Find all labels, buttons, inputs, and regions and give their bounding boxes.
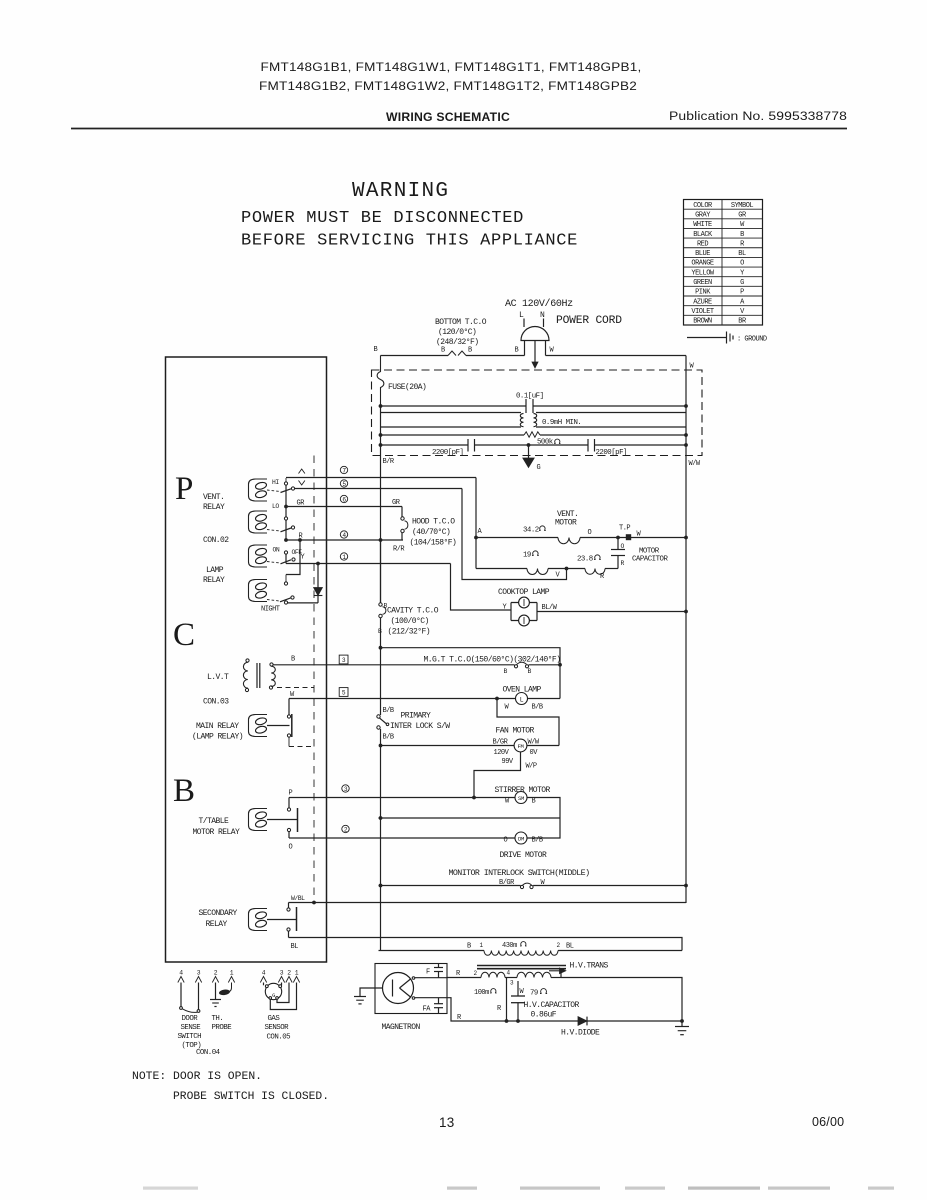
wire gas pin1 (270, 983, 296, 1010)
svg-text:MAGNETRON: MAGNETRON (382, 1023, 421, 1032)
label 500kohm (537, 439, 560, 447)
color table row GRAY (695, 211, 747, 219)
filter line L4 right (540, 434, 686, 436)
label LAMP RELAY (203, 566, 225, 585)
wire fan right (527, 745, 559, 747)
svg-text:430m: 430m (502, 942, 517, 950)
contact HI fixed (284, 478, 287, 485)
svg-text:MOTOR: MOTOR (639, 548, 660, 556)
svg-text:B: B (740, 231, 744, 239)
svg-text:2200[pF]: 2200[pF] (596, 449, 627, 457)
ground legend symbol (687, 332, 733, 344)
pin number 5 circled (340, 480, 347, 488)
label 34.2ohm (523, 526, 546, 535)
pin number 3 circled (342, 785, 349, 793)
wire W/BL line (289, 902, 687, 904)
svg-text:: GROUND: : GROUND (737, 336, 767, 344)
svg-text:POWER MUST BE DISCONNECTED: POWER MUST BE DISCONNECTED (241, 209, 524, 228)
svg-text:DOOR: DOOR (182, 1015, 199, 1023)
dashed stub main relay (289, 746, 314, 748)
wire fan feed from W node (497, 699, 559, 746)
gas sensor body (265, 983, 281, 999)
wire pin2 probe ground (215, 983, 217, 1000)
ground magnetron (354, 997, 366, 1004)
wire monitor right (533, 885, 686, 887)
svg-text:R/R: R/R (393, 546, 405, 554)
svg-text:R: R (740, 240, 745, 248)
svg-text:FM: FM (518, 743, 524, 750)
svg-text:W/W: W/W (689, 460, 701, 468)
ground G arrow (523, 445, 534, 468)
svg-text:23.8: 23.8 (577, 556, 593, 564)
svg-text:V: V (740, 308, 745, 316)
wire top supply right segment (546, 341, 687, 356)
test point T.P (619, 525, 631, 541)
wire A line (286, 477, 476, 479)
svg-text:1: 1 (295, 970, 299, 977)
pin number 6 circled (340, 495, 347, 503)
contact blade vent (281, 489, 292, 493)
node ground-G (527, 443, 531, 447)
label TH. PROBE (212, 1015, 233, 1032)
dashed link main relay (288, 737, 290, 746)
svg-text:PRIMARY: PRIMARY (401, 712, 432, 721)
svg-text:WHITE: WHITE (693, 221, 712, 229)
node rail monitor (684, 884, 688, 888)
lamp relay common bus (285, 554, 287, 563)
svg-text:100m: 100m (474, 989, 489, 997)
svg-text:BOTTOM T.C.O: BOTTOM T.C.O (435, 318, 487, 327)
relay coil K3 lamp relay (249, 545, 268, 567)
svg-text:CON.04: CON.04 (196, 1049, 221, 1057)
svg-text:Publication No. 5995338778: Publication No. 5995338778 (669, 109, 847, 123)
svg-text:B: B (291, 656, 295, 664)
node tap bottom (505, 1019, 509, 1023)
svg-text:BL: BL (738, 250, 746, 258)
svg-text:AC 120V/60Hz: AC 120V/60Hz (505, 298, 573, 310)
node rail-R1 (684, 404, 688, 408)
relay K3 actuator link (267, 562, 280, 564)
svg-text:CAPACITOR: CAPACITOR (632, 556, 668, 564)
wire gas pin3 (281, 983, 283, 986)
wire stirrer line (289, 797, 515, 799)
svg-text:2: 2 (474, 970, 478, 977)
wire R line (286, 539, 403, 541)
svg-text:B/B: B/B (532, 704, 543, 712)
svg-text:RELAY: RELAY (203, 576, 225, 585)
svg-text:SM: SM (518, 795, 524, 802)
color table row COLOR (693, 202, 753, 210)
secondary relay armature (267, 907, 297, 931)
color table row AZURE (693, 298, 745, 306)
svg-text:H.V.DIODE: H.V.DIODE (561, 1029, 600, 1038)
control panel enclosure (166, 357, 327, 962)
thermal cutout MGT contacts (514, 662, 528, 668)
wire HV cap tap (506, 978, 508, 1022)
node fan rail (379, 744, 383, 748)
svg-text:W: W (505, 798, 510, 806)
contact night top (284, 575, 287, 586)
wire drive line (289, 837, 515, 839)
svg-text:GREEN: GREEN (693, 279, 712, 287)
filter line L3 left (381, 426, 522, 428)
svg-text:BL: BL (291, 943, 299, 951)
svg-text:NOTE: DOOR IS OPEN.: NOTE: DOOR IS OPEN. (132, 1071, 262, 1083)
wire monitor left (379, 885, 521, 887)
wire gas pin2 (277, 983, 289, 1003)
main rail mid (380, 618, 382, 716)
svg-text:0.9mH MIN.: 0.9mH MIN. (542, 419, 581, 427)
svg-text:B/B: B/B (383, 734, 394, 742)
svg-text:B: B (532, 798, 536, 806)
node cap top (616, 536, 620, 540)
node monitor rail (379, 884, 383, 888)
label VENT. MOTOR (555, 510, 578, 528)
power cord ground pin (532, 341, 538, 369)
label CAVITY T.C.O (387, 607, 439, 637)
node stirrer fan (472, 796, 476, 800)
svg-text:13: 13 (439, 1115, 455, 1130)
svg-text:C: C (173, 617, 195, 653)
label SECONDARY RELAY (199, 909, 238, 929)
svg-text:SYMBOL: SYMBOL (731, 202, 754, 210)
relay coil K5 main relay (249, 715, 268, 737)
svg-text:0.1[uF]: 0.1[uF] (516, 393, 544, 401)
connector pin 3 at x281.5 (278, 970, 284, 983)
svg-text:P: P (175, 471, 193, 507)
node rail cooktop (684, 610, 688, 614)
svg-text:79: 79 (530, 990, 538, 998)
wire top supply left segment with bottom TCO (381, 341, 525, 356)
wire Y drop to cooktop (451, 564, 512, 611)
ground th probe (210, 1000, 221, 1007)
svg-text:(100/0°C): (100/0°C) (391, 617, 429, 626)
dashed panel boundary (313, 456, 315, 903)
svg-text:W/W: W/W (528, 739, 540, 747)
wire MGT to oven lamp right (529, 665, 560, 699)
main rail below interlock (380, 729, 382, 951)
svg-text:GAS: GAS (268, 1015, 281, 1023)
filter line L5 left (381, 444, 469, 446)
color table row PINK (695, 289, 744, 297)
svg-text:4: 4 (262, 970, 266, 977)
svg-text:RELAY: RELAY (203, 503, 225, 512)
svg-text:P: P (740, 289, 744, 297)
capacitor C5 HV (511, 981, 525, 1021)
switch primary interlock (377, 715, 389, 729)
svg-text:DRIVE MOTOR: DRIVE MOTOR (500, 851, 548, 860)
svg-text:B: B (528, 668, 532, 675)
svg-text:DM: DM (518, 836, 524, 843)
svg-text:0V: 0V (530, 749, 539, 757)
svg-text:1: 1 (230, 970, 234, 977)
svg-text:W: W (550, 347, 555, 355)
transformer T1 HV primary (379, 951, 683, 956)
left filter rail B/R (380, 406, 382, 602)
svg-text:A: A (478, 528, 483, 536)
label MAIN RELAY (LAMP RELAY) (192, 722, 243, 742)
color table row BROWN (693, 318, 747, 326)
wire V line (295, 488, 462, 490)
node rail-R5 (684, 443, 688, 447)
label HOOD T.C.O (410, 518, 457, 548)
svg-text:FMT148G1B2, FMT148G1W2, FMT148: FMT148G1B2, FMT148G1W2, FMT148G1T2, FMT1… (259, 79, 637, 93)
node oven lamp W (495, 697, 499, 701)
svg-text:O: O (588, 529, 592, 537)
wire HV secondary to right (561, 978, 682, 1022)
filter line L3 right (536, 426, 686, 428)
wire magnetron F lead (415, 977, 447, 979)
svg-text:SWITCH: SWITCH (178, 1033, 202, 1041)
right rail W/W (685, 356, 687, 904)
contact Y moving (292, 558, 295, 561)
label 100mohm (474, 989, 497, 997)
svg-text:B/GR: B/GR (499, 879, 515, 887)
relay coil K2 con02 (249, 511, 268, 533)
svg-text:3: 3 (280, 970, 284, 977)
svg-text:WARNING: WARNING (352, 180, 449, 203)
terminal arrows on A line (299, 469, 305, 485)
wire stirrer right (527, 798, 560, 819)
svg-text:FAN MOTOR: FAN MOTOR (496, 727, 535, 736)
svg-text:GRAY: GRAY (695, 211, 711, 219)
svg-text:VENT.: VENT. (203, 493, 224, 502)
svg-text:L.V.T: L.V.T (207, 673, 229, 682)
filter line L2 right (536, 412, 686, 414)
wire Y line (286, 563, 451, 565)
svg-text:W: W (290, 691, 295, 699)
wire B line to MGT (273, 664, 514, 666)
label 430mohm (502, 942, 527, 950)
terminal N lead (543, 319, 545, 328)
svg-text:W/BL: W/BL (291, 895, 305, 902)
svg-text:1: 1 (480, 942, 484, 949)
contact blade night (280, 598, 291, 602)
svg-text:06/00: 06/00 (812, 1115, 844, 1129)
node rail-L5 (379, 443, 383, 447)
svg-text:B/R: B/R (383, 458, 395, 466)
thermal cutout cavity TCO (379, 603, 386, 618)
connector pin 1 at x296.5 (293, 970, 299, 983)
svg-text:3: 3 (197, 970, 201, 977)
node GR takeoff (284, 505, 288, 509)
filter line L1 left (381, 405, 527, 407)
svg-text:2: 2 (287, 970, 291, 977)
svg-text:99V: 99V (502, 758, 514, 766)
svg-text:2: 2 (214, 970, 218, 977)
svg-text:CON.02: CON.02 (203, 536, 229, 545)
wire drive right (527, 818, 560, 838)
svg-text:PROBE: PROBE (212, 1024, 233, 1032)
svg-text:120V: 120V (494, 749, 510, 757)
filter line L2 left (381, 412, 522, 414)
svg-text:GR: GR (392, 499, 401, 507)
relay K1 actuator link (267, 490, 280, 492)
contact ON fixed (284, 551, 287, 554)
label MOTOR CAPACITOR (632, 548, 668, 564)
svg-text:BROWN: BROWN (693, 318, 712, 326)
svg-text:MONITOR INTERLOCK SWITCH(MIDDL: MONITOR INTERLOCK SWITCH(MIDDLE) (449, 869, 590, 878)
svg-text:B: B (504, 668, 508, 675)
filter line L5 right (595, 444, 687, 446)
svg-text:M.G.T T.C.O(150/60°C)(302/140°: M.G.T T.C.O(150/60°C)(302/140°F) (424, 656, 561, 665)
noise filter dashed enclosure (372, 370, 703, 456)
diode D1 (314, 564, 323, 603)
wire W line (289, 698, 516, 700)
svg-text:PINK: PINK (695, 289, 711, 297)
color table row BLUE (695, 250, 746, 258)
node MGT junction (558, 663, 562, 667)
svg-text:W/P: W/P (526, 763, 537, 771)
svg-text:AZURE: AZURE (693, 298, 712, 306)
svg-text:FMT148G1B1, FMT148G1W1, FMT148: FMT148G1B1, FMT148G1W1, FMT148G1T1, FMT1… (261, 60, 642, 74)
svg-text:2200[pF]: 2200[pF] (432, 449, 463, 457)
pin number 7 circled (340, 466, 347, 474)
wire fan bottom to stirrer (474, 752, 521, 798)
thermal cutout hood TCO (401, 517, 408, 533)
svg-text:LO: LO (272, 503, 279, 510)
node diode takeoff (316, 562, 320, 566)
diode D2 HV (578, 1017, 682, 1026)
wire t-table top (288, 798, 290, 809)
svg-text:B: B (515, 347, 519, 355)
svg-text:B: B (441, 347, 445, 355)
wire motors return (379, 817, 561, 819)
label DOOR SENSE SWITCH (TOP) (178, 1015, 202, 1050)
pin number 3 boxed (339, 655, 348, 664)
svg-text:ORANGE: ORANGE (691, 260, 714, 268)
svg-text:(LAMP RELAY): (LAMP RELAY) (192, 733, 243, 742)
svg-text:B: B (467, 943, 471, 951)
node rail-L4 (379, 433, 383, 437)
motor M1 fan (514, 739, 527, 752)
svg-text:W: W (740, 221, 745, 229)
svg-text:WIRING SCHEMATIC: WIRING SCHEMATIC (386, 111, 510, 124)
capacitor C3 2200pF right (588, 439, 595, 452)
label T/TABLE MOTOR RELAY (193, 817, 241, 837)
svg-text:G: G (740, 279, 744, 287)
wire L5 middle (475, 444, 589, 446)
svg-text:R: R (621, 560, 625, 567)
contact V moving (291, 487, 294, 490)
connector pin 4 at x263.5 (260, 970, 266, 983)
svg-text:H.V.CAPACITOR: H.V.CAPACITOR (524, 1001, 580, 1010)
svg-text:INTER LOCK S/W: INTER LOCK S/W (390, 722, 450, 731)
svg-text:COOKTOP LAMP: COOKTOP LAMP (498, 588, 550, 597)
connector pin 2 at x215.5 (212, 970, 218, 983)
node R night branch (298, 538, 302, 542)
svg-text:CON.03: CON.03 (203, 698, 229, 707)
svg-text:W: W (520, 988, 525, 996)
power cord plug body (521, 327, 549, 341)
node HV ground (680, 1019, 684, 1023)
vent motor aux winding (476, 569, 618, 575)
wire pin3 door switch (198, 983, 200, 1010)
choke L1 0.9mH windings (520, 414, 536, 427)
node dashed boundary end (312, 901, 316, 905)
connector pin 4 at x181 (178, 970, 184, 983)
svg-text:RELAY: RELAY (206, 920, 228, 929)
header rule (71, 128, 847, 130)
svg-text:B/B: B/B (383, 707, 394, 715)
contact con02 moving (291, 526, 294, 529)
color table row VIOLET (691, 308, 745, 316)
svg-text:3: 3 (510, 980, 514, 987)
label BOTTOM T.C.O (435, 318, 487, 347)
transformer T1 filament secondary (447, 972, 562, 977)
svg-text:T.P: T.P (619, 525, 630, 533)
wire secondary bottom (288, 931, 290, 938)
node rail-L1 (379, 404, 383, 408)
connector pin 3 at x198.5 (195, 970, 201, 983)
svg-text:L: L (519, 311, 524, 320)
svg-text:ON: ON (273, 547, 280, 554)
capacitor feedthrough F (434, 964, 443, 978)
svg-text:BR: BR (738, 318, 747, 326)
relay K4 actuator link (267, 600, 280, 602)
svg-text:4: 4 (507, 970, 511, 977)
color table row ORANGE (691, 260, 744, 268)
node motors rail (379, 816, 383, 820)
svg-text:MOTOR RELAY: MOTOR RELAY (193, 828, 241, 837)
relay coil K7 secondary (249, 909, 268, 931)
svg-text:COLOR: COLOR (693, 202, 713, 210)
relay coil K1 vent relay (249, 479, 268, 501)
svg-text:O: O (740, 260, 744, 268)
color table row YELLOW (691, 269, 745, 277)
transformer T1 core (477, 966, 566, 969)
color table row WHITE (693, 221, 745, 229)
motor M3 drive (515, 832, 527, 844)
label 19ohm (523, 551, 539, 560)
svg-text:BL/W: BL/W (542, 604, 558, 612)
svg-text:F: F (426, 969, 430, 977)
filter line L4 left (381, 434, 525, 436)
wire V drop (462, 489, 567, 580)
svg-text:VIOLET: VIOLET (691, 308, 714, 316)
svg-text:A: A (740, 298, 745, 306)
svg-text:GR: GR (738, 211, 747, 219)
contact night bottom (284, 601, 287, 604)
pin number 4 circled (340, 531, 347, 539)
vent motor main winding (476, 538, 686, 544)
svg-text:(120/0°C): (120/0°C) (438, 328, 476, 337)
pin number 1 circled (340, 553, 347, 561)
svg-text:(212/32°F): (212/32°F) (388, 628, 431, 637)
transformer LVT (243, 659, 275, 692)
svg-text:TH.: TH. (212, 1015, 224, 1023)
scan artifact strip (143, 1187, 894, 1190)
wire hood TCO to R line (401, 533, 403, 540)
wire GR drop to hood TCO (401, 507, 403, 517)
magnetron enclosure (375, 964, 447, 1014)
wire gas pin4 (263, 983, 265, 986)
wire pin1 probe (222, 983, 232, 993)
svg-text:V: V (556, 572, 561, 580)
wire cooktop to rail (537, 611, 686, 613)
svg-text:HI: HI (272, 479, 279, 486)
switch monitor interlock (520, 883, 533, 888)
connector pin 1 at x231.5 (228, 970, 234, 983)
capacitor feedthrough FA (434, 998, 443, 1014)
label 23.8ohm (577, 555, 601, 564)
capacitor C1 0.1uF (526, 399, 533, 413)
label 79ohm (530, 989, 547, 998)
label GAS SENSOR CON.05 (265, 1015, 291, 1042)
svg-text:R: R (497, 1005, 502, 1013)
main relay armature (267, 714, 292, 737)
svg-text:W: W (690, 363, 695, 371)
